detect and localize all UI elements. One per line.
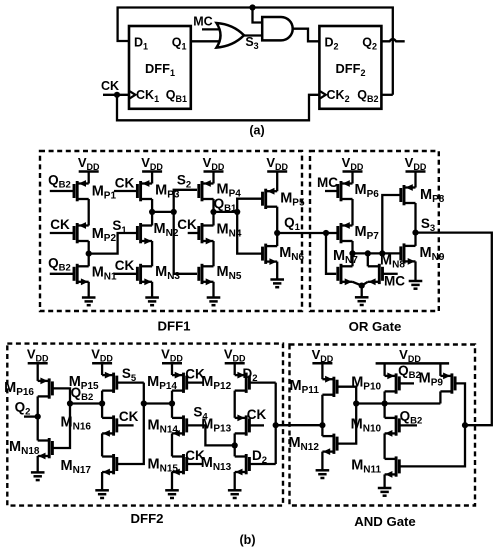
ground below MN6: [270, 262, 284, 288]
wire MN8 source to common node: [362, 282, 368, 286]
transistor MP3: [137, 180, 179, 201]
dashed box AND Gate sub-circuit: [290, 345, 476, 506]
wire MN16 gate stub CK: [117, 424, 134, 426]
transistor MN9: [401, 243, 445, 264]
VDD supply of MP1: [78, 155, 100, 184]
VDD supply of MP8: [405, 155, 427, 188]
wire MP9 drain to NAND node: [439, 391, 441, 403]
or-gate (a): [217, 23, 245, 48]
svg-text:CK: CK: [50, 217, 70, 232]
ground below MN15: [165, 472, 179, 498]
wire node S5 horizontal: [144, 402, 172, 404]
transistor MP1: [74, 180, 116, 201]
wire MP15 gate stub S5: [117, 381, 144, 383]
transistor MN2: [137, 221, 178, 244]
wire from top feedback node down to AND gate input: [253, 8, 263, 23]
VDD supply of MP16: [27, 347, 49, 381]
ground below MN18: [31, 456, 45, 480]
wire MN14 source to MN15 drain: [171, 433, 173, 456]
wire MN14 gate to node S4: [187, 425, 235, 445]
transistor MP10: [351, 373, 399, 394]
VDD supply of MP12: [224, 347, 246, 375]
wire MP7 drain to NOR node: [351, 241, 353, 253]
wire MP10 drain to NAND node: [383, 391, 385, 403]
transistor MN10: [351, 415, 400, 436]
VDD supply of MP15: [91, 347, 113, 375]
svg-text:AND Gate: AND Gate: [354, 514, 416, 529]
node Q1 split to MP7 and MN7: [323, 230, 329, 236]
VDD supply of MP6: [342, 155, 364, 184]
wire MN1 drain to node S1: [88, 254, 90, 267]
transistor MP15: [69, 372, 117, 393]
ground below MN5: [207, 282, 221, 305]
wire MN6 drain to node Q1: [276, 233, 278, 246]
node S5 junction on jog: [141, 400, 147, 406]
flip-flop DFF2 block: [319, 26, 381, 109]
wire MN7 drain to NOR node: [351, 253, 353, 266]
wire MP1 gate stub QB2: [50, 190, 74, 192]
svg-text:CK: CK: [115, 175, 135, 190]
wire MN4 source to MN5 drain: [212, 241, 214, 266]
wire MN16 drain to node QB2: [101, 404, 103, 418]
transistor MN11: [351, 456, 399, 477]
wire AND output to D2: [293, 29, 320, 42]
wire MN2 source to MN3 drain: [151, 241, 153, 266]
wire Q1 from DFF1 to OR gate input: [191, 40, 220, 42]
wire MN2 drain to node S2: [151, 212, 153, 226]
ground below MN3: [145, 282, 159, 305]
transistor MP14: [147, 372, 187, 393]
node common source MN7 MN8: [359, 283, 365, 289]
wire net S1 to MN2 gate: [89, 233, 138, 254]
wire MP14 drain to node S5: [171, 391, 173, 404]
node NAND output: [382, 400, 388, 406]
wire net QB1 to MP5 gate and MN6 gate: [237, 199, 262, 254]
VDD supply of MP14: [161, 347, 183, 375]
wire net S5 to MP15 and MN17 gates: [117, 383, 144, 464]
wire Q2 stub: [24, 415, 38, 417]
transistor MN1: [74, 264, 117, 285]
transistor MN18: [9, 438, 52, 459]
wire MP15 drain to node QB2: [101, 391, 103, 404]
node NAND junction to inverter gates: [353, 400, 359, 406]
transistor MP2: [74, 222, 116, 244]
section part (a) block diagram: [101, 4, 405, 137]
wire feedback net from QB2 along top to D1: [118, 8, 393, 95]
transistor MN16: [61, 415, 117, 437]
wire S3 to AND gate input: [416, 233, 492, 426]
transistor MP9: [419, 371, 455, 394]
transistor MP11: [290, 376, 338, 397]
wire MN11 gate to S3: [399, 425, 465, 466]
wire MN13 gate stub D2: [249, 463, 275, 465]
svg-text:CK: CK: [115, 258, 135, 273]
node S5: [169, 400, 175, 406]
transistor MN7: [333, 248, 358, 285]
wire MC to OR gate input: [202, 28, 221, 30]
VDD supply rail of MP10 MP9: [376, 347, 450, 364]
wire NOR node to MN9 gate: [353, 252, 401, 254]
VDD supply of MP3: [141, 155, 163, 184]
transistor MN17: [61, 454, 117, 476]
transistor MP7: [338, 222, 379, 243]
wire Q1 into MP7 gate: [326, 232, 338, 234]
wire MN10 gate stub QB2: [399, 424, 417, 426]
and-gate (a): [262, 17, 293, 40]
node S2 at MP3 drain: [149, 209, 155, 215]
svg-text:MC: MC: [193, 15, 212, 29]
node NOR junction MP8 gate: [379, 250, 385, 256]
wire MN13 drain to node S4: [234, 445, 236, 456]
wire MP2 drain to node S1: [88, 241, 90, 254]
wire MN14 drain to node S5: [171, 404, 173, 418]
wire MN10 source to MN11 drain: [383, 433, 385, 459]
node top feedback junction to AND gate: [249, 4, 255, 10]
wire NOR node to MP8 gate: [382, 195, 401, 253]
wire QB2 from DFF2 to feedback vertical: [381, 94, 392, 96]
node QB1 at MP4 drain: [210, 209, 216, 215]
ground below MN11: [378, 474, 392, 495]
wire MP9 source from VDD rail: [439, 363, 441, 376]
node D2: [273, 422, 279, 428]
wire Q1 to OR gate input: [277, 232, 326, 234]
node Q2: [35, 414, 41, 420]
wire MN8 drain to NOR node: [367, 253, 369, 266]
node CK junction: [114, 92, 120, 98]
wire MP12 gate stub D2: [249, 381, 275, 383]
VDD supply of MP11: [312, 347, 334, 379]
wire MN12 gate to NAND node: [337, 404, 356, 444]
svg-text:OR Gate: OR Gate: [349, 319, 402, 334]
transistor MN5: [199, 264, 242, 285]
wire node QB1 horizontal: [214, 211, 238, 213]
wire MP13 drain to node S4: [234, 433, 236, 445]
dashed box DFF2 sub-circuit: [7, 344, 283, 506]
wire MP8 drain to node S3: [414, 203, 416, 233]
transistor MN3: [137, 264, 180, 285]
svg-text:(b): (b): [240, 533, 256, 547]
wire MP3 drain to node S2: [151, 199, 153, 212]
wire MP13 gate stub CK: [249, 424, 264, 426]
transistor MP13: [201, 415, 249, 436]
ground below MN17: [95, 472, 109, 498]
wire D2 from AND gate output: [276, 424, 323, 426]
wire MP3 gate stub CK: [114, 190, 137, 192]
wire NAND node horizontal: [356, 402, 440, 404]
flip-flop DFF1 block: [129, 26, 191, 109]
transistor MP12: [201, 372, 249, 393]
node NOR junction MN8 drain: [365, 250, 371, 256]
transistor MN12: [288, 434, 337, 455]
transistor MN4: [199, 222, 242, 245]
svg-text:DFF2: DFF2: [131, 511, 164, 526]
transistor MP8: [401, 184, 445, 205]
wire MN3 gate stub CK: [114, 273, 137, 275]
wire MN16 source to MN17 drain: [101, 433, 103, 456]
node S3: [412, 230, 418, 236]
wire MN9 drain to node S3: [414, 233, 416, 246]
svg-text:(a): (a): [249, 124, 264, 138]
svg-text:CK: CK: [177, 217, 197, 232]
wire MN10 drain to NAND node: [383, 404, 385, 418]
svg-text:CK: CK: [247, 407, 267, 422]
transistor MP6: [338, 180, 379, 201]
wire MP10 source from VDD rail: [383, 363, 385, 376]
ground below MN13: [228, 472, 242, 498]
wire node QB2 horizontal: [70, 402, 102, 404]
wire MP16 gate to QB2 node: [52, 388, 70, 403]
node QB2: [99, 400, 105, 406]
wire MN4 gate stub CK: [188, 232, 199, 234]
wire CK input to CK1: [103, 94, 129, 96]
wire CK routed to CK2: [117, 95, 319, 121]
wire Q1 down to MN7 gate: [326, 233, 336, 274]
transistor MP16: [4, 378, 52, 399]
wire MP11 gate to NAND node: [337, 387, 356, 404]
wire net D2 vertical to MP12 and MN13 gates: [275, 383, 277, 464]
node S3 at AND input: [462, 422, 468, 428]
ground below MN9: [409, 261, 423, 288]
wire MN12 drain to node D2: [321, 425, 323, 436]
node S2 junction to jog: [171, 209, 177, 215]
wire MN8 gate stub MC: [383, 273, 398, 275]
svg-text:MC: MC: [317, 175, 338, 190]
wire MP16 drain to node Q2: [37, 396, 39, 416]
wire MP9 gate to S3: [455, 383, 465, 425]
svg-text:CK: CK: [119, 409, 139, 424]
wire MP12 drain to MP13 source: [234, 391, 236, 418]
wire S3 from OR gate to AND gate: [244, 34, 262, 36]
wire MN15 gate stub CK: [187, 463, 204, 465]
node NOR output at MP7 drain: [349, 250, 355, 256]
wire MP10 gate stub QB2: [399, 382, 414, 384]
node QB2 junction to MP16 MN18 gates: [67, 400, 73, 406]
wire MP14 gate stub CK: [187, 381, 204, 383]
transistor MN8: [368, 253, 406, 286]
transistor MN13: [201, 454, 250, 475]
transistor MN14: [148, 415, 187, 436]
transistor MP5: [263, 188, 305, 209]
ground below MN12: [316, 452, 330, 478]
wire MN18 drain to node Q2: [37, 417, 39, 441]
node S1: [86, 251, 92, 257]
transistor MP4: [199, 180, 241, 201]
wire net S2 to MP4 gate and MN5 gate: [174, 190, 197, 274]
svg-text:DFF1: DFF1: [158, 319, 191, 334]
wire MN7 source to common node: [353, 282, 362, 286]
wire MN1 gate stub QB2: [50, 273, 74, 275]
ground below MN1: [82, 282, 96, 305]
wire node S2 horizontal: [152, 211, 174, 213]
dashed box OR Gate sub-circuit: [310, 151, 439, 311]
VDD supply of MP4: [203, 155, 225, 184]
transistor MN15: [148, 454, 187, 475]
wire MN18 gate to QB2 node: [52, 404, 70, 449]
VDD supply of MP5: [266, 155, 288, 191]
svg-text:MC: MC: [384, 274, 405, 289]
svg-text:CK: CK: [101, 79, 119, 93]
node QB1 junction to jog: [234, 209, 240, 215]
wire MP5 drain to node Q1: [276, 207, 278, 233]
wire Q2 output with crossover hop: [381, 39, 404, 41]
wire MP4 drain to node QB1: [212, 199, 214, 212]
wire MP1 drain to MP2 source: [88, 199, 90, 226]
transistor MN6: [263, 244, 305, 265]
wire MN4 drain to node QB1: [212, 212, 214, 226]
ground below MN7 MN8: [355, 286, 369, 305]
node D2 output of AND: [319, 422, 325, 428]
dashed box DFF1 sub-circuit: [40, 151, 302, 311]
node S4: [232, 442, 238, 448]
wire MP6 gate stub MC: [325, 190, 338, 192]
node Q1: [274, 230, 280, 236]
wire MP2 gate stub CK: [50, 232, 74, 234]
wire MP11 drain to node D2: [321, 395, 323, 426]
wire MP6 drain to MP7 source: [351, 199, 353, 226]
